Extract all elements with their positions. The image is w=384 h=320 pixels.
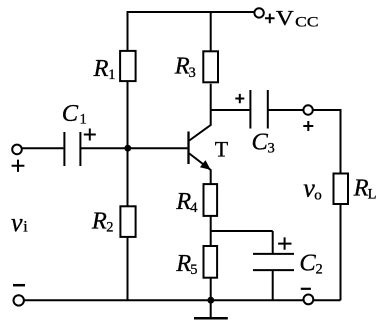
svg-text:R: R [93, 55, 109, 82]
svg-text:R: R [175, 250, 191, 277]
svg-text:R: R [175, 188, 191, 215]
svg-text:R: R [353, 175, 369, 202]
svg-text:o: o [314, 188, 322, 204]
svg-text:i: i [23, 218, 28, 235]
svg-text:V: V [276, 6, 294, 30]
svg-text:2: 2 [106, 220, 113, 236]
svg-text:R: R [91, 208, 107, 235]
svg-text:1: 1 [108, 67, 115, 83]
svg-text:1: 1 [80, 112, 87, 128]
svg-text:4: 4 [190, 200, 198, 216]
svg-text:5: 5 [190, 262, 197, 278]
svg-text:L: L [368, 187, 377, 203]
svg-text:3: 3 [268, 140, 275, 156]
svg-text:C: C [299, 250, 316, 277]
svg-text:CC: CC [295, 15, 318, 31]
svg-text:v: v [11, 208, 23, 237]
svg-text:R: R [174, 52, 190, 79]
svg-text:C: C [252, 129, 269, 156]
svg-text:T: T [215, 137, 229, 162]
svg-text:3: 3 [189, 65, 196, 81]
svg-text:2: 2 [316, 261, 323, 277]
svg-text:C: C [62, 100, 79, 127]
